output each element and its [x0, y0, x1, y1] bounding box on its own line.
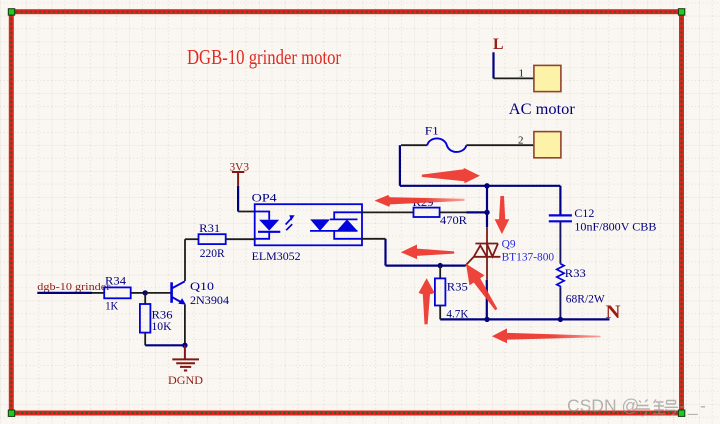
svg-text:3V3: 3V3: [230, 160, 250, 174]
svg-text:220R: 220R: [200, 246, 225, 260]
svg-text:Q10: Q10: [190, 279, 214, 293]
resistor R35: [435, 278, 446, 305]
annotation arrow left (at gate): [401, 245, 454, 260]
svg-text:CSDN @: CSDN @: [567, 396, 639, 416]
pin: OP4 pin 1 (anode): [238, 211, 255, 213]
svg-text:BT137-800: BT137-800: [502, 249, 554, 263]
wire: dgb-10 grinder net: [37, 292, 92, 294]
pin: R35 top: [439, 266, 441, 279]
capacitor C12: [549, 215, 572, 221]
connector box pin1 (AC motor): [534, 65, 561, 91]
OP4 internal LED: [255, 212, 281, 239]
junction: base node: [143, 290, 148, 295]
wire: gate net horizontal: [386, 265, 466, 267]
resistor R29: [414, 208, 440, 217]
junction: bottom rail / triac: [484, 317, 489, 322]
pin: connector pin 1: [494, 77, 534, 79]
svg-text:AC motor: AC motor: [509, 101, 576, 118]
pin: fuse F1 right pin to connector pin 2: [466, 144, 534, 146]
fuse F1 body: [427, 138, 466, 152]
pin: R34 left: [92, 292, 104, 294]
wire: triac MT1 down to bottom rail: [486, 280, 488, 320]
wire: OP4 pin3 down to gate net: [384, 239, 386, 266]
svg-text:DGND: DGND: [168, 373, 203, 387]
triac Q9: [465, 227, 500, 280]
svg-text:-_-: -_-: [680, 396, 709, 417]
power 3V3: [232, 172, 244, 186]
OP4 internal photo-triac: [310, 212, 362, 239]
pin: OP4 pin3: [362, 238, 386, 240]
pin: R29 right: [440, 211, 467, 213]
svg-text:R34: R34: [105, 274, 126, 288]
svg-text:F1: F1: [425, 123, 439, 137]
wire: F1 left corner down: [399, 145, 401, 186]
wire: R29 to triac vertical tee: [467, 211, 488, 213]
pin: R35 bottom: [439, 306, 441, 320]
svg-text:4.7K: 4.7K: [446, 307, 468, 321]
wire: 3V3 to OP4 pin1: [237, 186, 239, 212]
pin: Q10 collector: [184, 239, 186, 281]
wire: top horizontal run to C12: [400, 185, 561, 187]
pin: R36 top: [144, 293, 146, 304]
transistor Q10: [172, 281, 186, 304]
junction: emitter / DGND: [182, 343, 187, 348]
svg-text:2N3904: 2N3904: [190, 293, 229, 307]
resistor R36: [140, 304, 151, 333]
resistor R31: [199, 234, 226, 244]
pin: OP4 pin2 (cathode) from R31: [226, 238, 255, 240]
optocoupler OP4 body: [255, 204, 362, 245]
wire: L vertical: [492, 52, 494, 78]
pin: R31 left: [185, 238, 199, 240]
pin: OP4 pin4 to R29: [362, 211, 414, 213]
svg-text:L: L: [493, 36, 504, 53]
pin: Q10 emitter: [184, 305, 186, 346]
svg-text:DGB-10 grinder motor: DGB-10 grinder motor: [187, 45, 341, 69]
svg-text:10nF/800V CBB: 10nF/800V CBB: [574, 220, 656, 234]
svg-text:1: 1: [519, 68, 525, 80]
annotation arrow up (at R35): [419, 278, 435, 324]
wire: C12 branch down: [559, 186, 561, 215]
junction: R29 net to triac MT2: [484, 210, 489, 215]
watermark CSDN: [567, 396, 708, 417]
resistor R34: [104, 287, 131, 298]
pin: R36 bottom: [144, 333, 146, 346]
junction: bottom rail / R33: [558, 317, 563, 322]
annotation arrow down (at Q9 branch): [495, 196, 510, 234]
wire: branch down to Q9: [486, 186, 488, 227]
svg-text:R33: R33: [565, 266, 586, 280]
wire: R36 to emitter node: [145, 344, 185, 346]
svg-text:R31: R31: [199, 221, 220, 235]
resistor R33 zigzag: [557, 264, 564, 288]
svg-text:68R/2W: 68R/2W: [566, 292, 606, 306]
annotation arrow left (bottom rail): [492, 328, 601, 343]
svg-text:Q9: Q9: [502, 236, 516, 250]
svg-text:1K: 1K: [105, 299, 118, 313]
svg-text:470R: 470R: [440, 213, 467, 227]
OP4 light arrows: [286, 215, 295, 230]
annotation arrow right (top): [422, 168, 480, 183]
annotation arrow left (over R29): [375, 195, 465, 207]
junction: top run / triac branch: [484, 183, 489, 188]
wire: C12 to R33: [559, 221, 561, 263]
svg-text:OP4: OP4: [252, 191, 277, 205]
connector box pin2 (AC motor): [534, 132, 561, 158]
pin: Q10 base: [145, 292, 171, 294]
pin: R34 right to base junction: [131, 292, 146, 294]
svg-text:ELM3052: ELM3052: [252, 249, 301, 263]
svg-text:2: 2: [518, 134, 524, 146]
svg-text:10K: 10K: [152, 319, 172, 333]
junction: gate net / R35: [438, 263, 443, 268]
wire: bottom N rail: [440, 318, 609, 320]
svg-text:C12: C12: [574, 206, 594, 220]
svg-text:R35: R35: [447, 279, 468, 293]
annotation arrow diagonal up-left (to gate): [466, 264, 497, 311]
ground DGND: [172, 345, 199, 370]
svg-text:dgb-10 grinder: dgb-10 grinder: [37, 281, 110, 293]
pin: fuse F1 left pin: [401, 144, 427, 146]
wire: R33 to bottom rail: [559, 288, 561, 320]
